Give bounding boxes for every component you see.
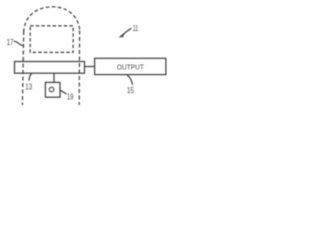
leader line 13 [29,74,32,81]
dome right side (dashed vertical) [78,31,80,106]
connector wire bar to output [85,66,95,68]
substrate bar 13 [15,62,85,74]
dome left side (dashed vertical) [22,31,23,105]
inner dashed rectangle [30,26,73,53]
arrow 11 shaft [123,28,131,34]
sensor square 19 [45,82,60,97]
dome arc (dashed chamber outline top) [24,7,80,32]
leader line 19 [60,90,67,94]
OUTPUT box 15 [95,58,166,74]
svg-text:17: 17 [7,37,14,47]
leader line 17 [14,41,23,45]
leader line 15 [127,75,132,85]
svg-text:13: 13 [25,81,32,91]
svg-text:11: 11 [133,23,138,33]
svg-text:OUTPUT: OUTPUT [117,63,144,72]
connector wire bar to sensor 19 [53,73,55,82]
sensor circle [49,87,54,92]
svg-text:19: 19 [67,92,74,102]
arrow 11 head [119,33,124,37]
svg-text:15: 15 [127,85,134,95]
